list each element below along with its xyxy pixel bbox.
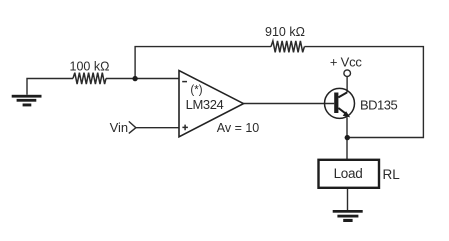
svg-text:Load: Load — [334, 166, 363, 181]
svg-text:Vin: Vin — [110, 120, 129, 135]
svg-text:BD135: BD135 — [360, 98, 398, 113]
svg-text:910 kΩ: 910 kΩ — [265, 25, 305, 39]
svg-text:(*): (*) — [190, 84, 202, 96]
svg-text:100 kΩ: 100 kΩ — [70, 60, 110, 74]
svg-text:LM324: LM324 — [186, 97, 224, 112]
svg-text:Av = 10: Av = 10 — [217, 121, 260, 135]
svg-text:+ Vcc: + Vcc — [330, 54, 363, 69]
svg-text:RL: RL — [383, 167, 401, 182]
